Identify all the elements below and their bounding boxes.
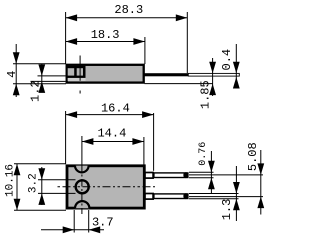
- dim 3.2: dimension line with outside arrows: [41, 167, 43, 205]
- dim 0.76: extension lines (short refs right of lead 1): [189, 171, 214, 173]
- dim 16.4: extension lines: [65, 111, 67, 164]
- lead 1 (upper pin, front view): shoulder: [145, 173, 153, 179]
- svg-text:1.3: 1.3: [220, 199, 234, 221]
- svg-text:3.7: 3.7: [92, 215, 114, 229]
- window pane 2: [77, 68, 83, 75]
- svg-text:5.08: 5.08: [246, 142, 260, 171]
- bottom notch (half hole): [75, 201, 89, 208]
- dim 28.3: extension lines: [65, 12, 67, 64]
- svg-text:1.2: 1.2: [28, 80, 42, 102]
- lead (thin outlined part): [188, 73, 239, 76]
- svg-text:28.3: 28.3: [114, 3, 143, 17]
- svg-text:1.85: 1.85: [199, 80, 213, 109]
- svg-text:14.4: 14.4: [97, 126, 126, 140]
- svg-text:3.2: 3.2: [28, 173, 40, 193]
- window pane 1: [68, 68, 75, 75]
- lead 2 (lower pin, front view): shoulder: [145, 194, 153, 200]
- dim 16.4: dimension line: [66, 114, 154, 116]
- node: horizontal centerline: [58, 186, 158, 188]
- wire: vertical centerline of hole (side view): [79, 56, 81, 94]
- dim 1.3: extension lines (short refs right of lead 2): [189, 193, 239, 195]
- svg-text:4: 4: [5, 71, 19, 78]
- dim 5.08: extension lines (lead centers): [189, 174, 263, 176]
- dim 28.3: dimension line with arrows: [66, 17, 188, 19]
- dim 0.4: dimension line with outside arrows: [235, 44, 237, 88]
- mounting hole circle: [76, 180, 89, 193]
- dim 14.4: dimension line: [82, 141, 144, 143]
- component body (side view of package): [67, 65, 144, 83]
- dim 18.3: extension line right: [144, 37, 146, 64]
- dim 1.3: dimension line with outside arrows: [235, 166, 237, 221]
- dim 14.4: extension line right: [143, 137, 145, 165]
- dim 10.16: extension lines: [14, 163, 66, 165]
- svg-text:16.4: 16.4: [101, 102, 130, 116]
- top notch (half hole): [75, 166, 89, 173]
- dim 3.7: dimension line with outside arrows: [41, 229, 104, 231]
- dim 0.76: dimension line with outside arrows: [210, 151, 212, 193]
- component body (front view): [67, 166, 144, 208]
- svg-text:0.76: 0.76: [198, 142, 209, 166]
- dim 18.3: dimension line with arrows: [66, 41, 145, 43]
- dim 4: dimension line with outside arrows: [15, 44, 17, 97]
- dim 1.85: bottom reference line (body bottom extended): [145, 83, 213, 85]
- dim 1.85: dimension line with outside arrows: [212, 58, 214, 96]
- dim 10.16: dimension line with inside arrows: [16, 164, 18, 210]
- lead (solid part, side view): [145, 73, 189, 76]
- svg-text:0.4: 0.4: [220, 49, 234, 71]
- dim 3.7: extension lines: [73, 210, 75, 233]
- dim 4: extension lines: [13, 63, 66, 65]
- lead 1: thin part: [154, 173, 188, 178]
- window detail inside body: frame: [66, 66, 86, 78]
- dim 3.2: extension lines: [38, 179, 76, 181]
- svg-text:10.16: 10.16: [5, 164, 17, 197]
- dim 1.2: extension lines: [38, 75, 66, 77]
- light strip under window: [68, 78, 86, 81]
- svg-text:18.3: 18.3: [91, 28, 120, 42]
- dim 1.2: dimension line with outside arrows: [41, 64, 43, 92]
- lead 2: thin part: [154, 194, 188, 199]
- dim 5.08: dimension line with outside arrows: [260, 150, 262, 215]
- node: vertical centerline / 14.4 extension line: [81, 136, 83, 165]
